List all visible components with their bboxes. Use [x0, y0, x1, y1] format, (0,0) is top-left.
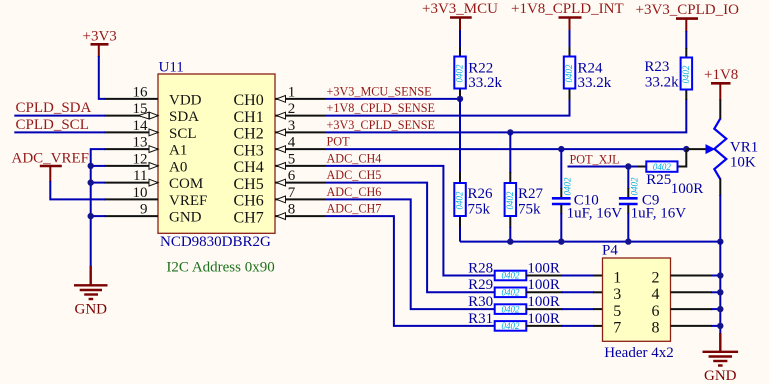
svg-text:POT: POT [327, 135, 351, 149]
svg-text:9: 9 [140, 202, 148, 218]
svg-text:R27: R27 [518, 186, 544, 202]
svg-text:0402: 0402 [653, 162, 672, 172]
svg-text:ADC_CH4: ADC_CH4 [327, 152, 382, 166]
U11 input arrows pins 1-8 (right side) [277, 96, 286, 220]
wire CPLD_SCL to pin14 [14, 131, 105, 133]
svg-text:CH4: CH4 [234, 159, 264, 176]
svg-text:0402: 0402 [564, 64, 574, 83]
svg-text:16: 16 [133, 84, 149, 100]
junction pin3/R27 [507, 129, 513, 135]
svg-text:6: 6 [288, 168, 296, 184]
wire +3V3_CPLD_IO to R23 [685, 31, 687, 49]
svg-text:POT_XJL: POT_XJL [570, 152, 620, 166]
svg-text:0402: 0402 [502, 321, 521, 331]
junction header pin6 [717, 306, 723, 312]
junction POT_XJL/C9 [625, 163, 631, 169]
potentiometer VR1 [686, 100, 758, 197]
svg-text:100R: 100R [527, 260, 560, 276]
svg-text:14: 14 [133, 118, 149, 134]
svg-text:100R: 100R [527, 294, 560, 310]
junction rail/C10 [558, 238, 564, 244]
header P4 body [602, 243, 674, 362]
svg-text:4: 4 [288, 135, 296, 151]
svg-text:CH6: CH6 [234, 193, 264, 210]
wire ADC_CH7 to R31 [325, 216, 495, 326]
U11 left pins 16..9 (black pin segments) [104, 99, 158, 216]
svg-text:33.2k: 33.2k [578, 75, 612, 91]
svg-text:8: 8 [288, 202, 296, 218]
svg-text:R24: R24 [578, 60, 604, 76]
junction POT/C10 [558, 146, 564, 152]
svg-text:0402: 0402 [502, 271, 521, 281]
U11 left pin numbers [133, 84, 149, 217]
svg-text:75k: 75k [468, 202, 491, 218]
junction POT/R25 [683, 146, 689, 152]
U11 pin 15 I/O bowtie arrow [138, 112, 158, 119]
svg-text:SCL: SCL [169, 126, 197, 142]
wire header right column [711, 242, 720, 334]
svg-text:VDD: VDD [169, 93, 202, 109]
resistor R22 [454, 47, 502, 99]
svg-text:100R: 100R [527, 311, 560, 327]
power port +1V8 [704, 67, 738, 101]
svg-text:R31: R31 [468, 311, 493, 327]
svg-text:CH1: CH1 [234, 109, 264, 126]
capacitor C10 [552, 149, 622, 242]
U11 right pin names CH0-CH7 [234, 92, 264, 226]
wire ADC_CH5 to R29 [325, 183, 495, 293]
svg-text:5: 5 [288, 152, 296, 168]
svg-text:R22: R22 [468, 60, 493, 76]
svg-text:R25: R25 [646, 172, 671, 188]
svg-text:CH5: CH5 [234, 176, 264, 193]
resistor R31 [468, 311, 602, 331]
svg-text:CH3: CH3 [234, 142, 264, 159]
junction rail/R27 [507, 238, 513, 244]
bottom rail wire [460, 241, 720, 243]
svg-text:NCD9830DBR2G: NCD9830DBR2G [160, 234, 271, 250]
junction rail/C9 [625, 238, 631, 244]
svg-text:CH2: CH2 [234, 126, 264, 143]
U11 input arrows pins 14,13,12,11 (left side) [149, 129, 158, 186]
svg-text:75k: 75k [518, 202, 541, 218]
resistor R30 [468, 294, 602, 314]
svg-text:+3V3_CPLD_IO: +3V3_CPLD_IO [636, 2, 740, 18]
svg-text:CPLD_SCL: CPLD_SCL [16, 117, 89, 133]
resistor R26 [454, 99, 493, 242]
svg-text:I2C Address 0x90: I2C Address 0x90 [166, 259, 274, 275]
IC U11 ADC body [158, 74, 275, 233]
capacitor C9 [619, 167, 686, 242]
U11 right pin numbers [288, 85, 296, 218]
svg-text:100R: 100R [527, 277, 560, 293]
svg-text:33.2k: 33.2k [645, 75, 679, 91]
power port +3V3_MCU [422, 1, 498, 31]
svg-text:0402: 0402 [455, 191, 465, 210]
svg-text:6: 6 [652, 303, 660, 320]
wire POT_XJL to R25 [568, 166, 639, 168]
wire pin1 to R22 [325, 98, 460, 100]
svg-text:R23: R23 [644, 59, 669, 75]
svg-text:2: 2 [652, 269, 660, 286]
resistor R29 [468, 277, 602, 297]
svg-text:+1V8_CPLD_INT: +1V8_CPLD_INT [511, 1, 624, 17]
svg-text:GND: GND [169, 210, 202, 226]
svg-text:R29: R29 [468, 277, 493, 293]
svg-text:1: 1 [613, 269, 621, 286]
ground symbol bottom-right [703, 333, 739, 366]
P4 right pin wires [671, 276, 713, 326]
svg-text:U11: U11 [159, 60, 184, 76]
svg-text:0402: 0402 [505, 191, 515, 210]
ground bus wire left (A1,A0,COM,GND) [91, 149, 105, 267]
wire pin2 to R24 [325, 99, 570, 116]
wire CPLD_SDA to pin15 [14, 115, 105, 117]
wire pin3 to R23 [325, 99, 686, 132]
wire +3V3 to VDD pin16 [99, 56, 105, 99]
svg-text:SDA: SDA [169, 109, 199, 125]
junction R22/pin1/R26 [457, 96, 463, 102]
svg-text:GND: GND [75, 301, 108, 317]
svg-text:+3V3_MCU_SENSE: +3V3_MCU_SENSE [327, 85, 432, 99]
svg-text:7: 7 [613, 320, 621, 337]
svg-text:ADC_CH5: ADC_CH5 [327, 168, 382, 182]
svg-text:+3V3: +3V3 [83, 29, 117, 45]
wire ADC_VREF to VREF pin10 [50, 181, 105, 199]
U11 right pins 1..8 (black pin segments) [275, 99, 325, 216]
resistor R25 [637, 150, 703, 197]
svg-text:33.2k: 33.2k [468, 75, 502, 91]
svg-text:100R: 100R [671, 181, 704, 197]
svg-text:3: 3 [288, 118, 296, 134]
svg-text:VREF: VREF [169, 193, 207, 209]
power port +1V8_CPLD_INT [511, 1, 624, 31]
svg-text:1uF, 16V: 1uF, 16V [631, 206, 687, 222]
svg-text:0402: 0402 [630, 177, 640, 196]
svg-text:+3V3_CPLD_SENSE: +3V3_CPLD_SENSE [327, 118, 435, 132]
svg-text:7: 7 [288, 185, 296, 201]
svg-text:5: 5 [613, 303, 621, 320]
power port ADC_VREF [12, 151, 90, 182]
junction header pin2 [717, 272, 723, 278]
junction header pin4 [717, 289, 723, 295]
svg-text:1uF, 16V: 1uF, 16V [567, 206, 623, 222]
svg-text:R28: R28 [468, 260, 493, 276]
wire ADC_CH6 to R30 [325, 199, 495, 309]
junction rail/VR1 [717, 238, 723, 244]
U11 left pin names [169, 93, 207, 226]
resistor R24 [564, 47, 612, 100]
svg-text:R30: R30 [468, 294, 493, 310]
power port +3V3_CPLD_IO [636, 2, 740, 32]
svg-text:10: 10 [133, 185, 148, 201]
wire VR1 bottom to rail [719, 195, 721, 242]
svg-text:0402: 0402 [502, 304, 521, 314]
svg-text:R26: R26 [468, 186, 494, 202]
svg-text:A1: A1 [169, 143, 187, 159]
svg-text:GND: GND [704, 368, 737, 384]
P4 pin numbers [613, 269, 659, 336]
svg-text:0402: 0402 [455, 64, 465, 83]
svg-text:ADC_CH6: ADC_CH6 [327, 185, 382, 199]
svg-text:COM: COM [169, 176, 203, 192]
svg-text:A0: A0 [169, 160, 187, 176]
svg-text:12: 12 [133, 151, 148, 167]
svg-text:Header 4x2: Header 4x2 [604, 345, 674, 361]
svg-text:ADC_VREF: ADC_VREF [12, 151, 90, 167]
svg-text:P4: P4 [602, 243, 618, 259]
wire +3V3_MCU to R22 [459, 30, 461, 48]
junction at A0 pin12 [88, 163, 94, 169]
resistor R23 [644, 48, 692, 100]
svg-text:CH0: CH0 [234, 92, 264, 109]
svg-text:3: 3 [613, 286, 621, 303]
resistor R28 [468, 260, 602, 280]
svg-text:1: 1 [288, 85, 296, 101]
svg-text:+1V8: +1V8 [704, 67, 738, 83]
ground symbol bottom-left [74, 266, 108, 299]
svg-text:4: 4 [652, 286, 660, 303]
svg-text:CH7: CH7 [234, 209, 264, 226]
svg-text:+3V3_MCU: +3V3_MCU [422, 1, 498, 17]
resistor R27 [505, 132, 544, 241]
svg-text:0402: 0402 [502, 288, 521, 298]
svg-text:+1V8_CPLD_SENSE: +1V8_CPLD_SENSE [327, 101, 435, 115]
wire ADC_CH4 to R28 [325, 166, 495, 276]
svg-text:10K: 10K [730, 154, 756, 170]
junction header pin8 [717, 323, 723, 329]
svg-text:2: 2 [288, 101, 296, 117]
svg-text:CPLD_SDA: CPLD_SDA [16, 100, 92, 116]
wire +1V8_CPLD_INT to R24 [569, 30, 571, 48]
svg-text:8: 8 [652, 320, 660, 337]
svg-text:13: 13 [133, 135, 148, 151]
svg-text:0402: 0402 [563, 177, 573, 196]
svg-text:ADC_CH7: ADC_CH7 [327, 202, 382, 216]
power port +3V3 top-left [83, 29, 117, 58]
junction at COM pin11 [88, 179, 94, 185]
svg-text:VR1: VR1 [730, 139, 758, 155]
wire pin4 POT to VR1 wiper [325, 148, 686, 150]
svg-text:0402: 0402 [681, 65, 691, 84]
svg-text:11: 11 [133, 168, 147, 184]
junction at GND pin9 [88, 213, 94, 219]
